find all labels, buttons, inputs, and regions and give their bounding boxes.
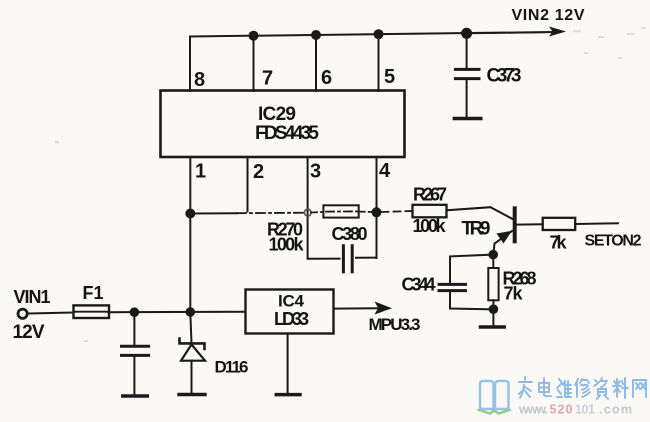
IC IC29 FDS4435 box: [161, 91, 405, 158]
svg-text:IC29: IC29: [258, 104, 296, 125]
transistor TR9 base bar: [513, 208, 517, 241]
node dot R268 bottom: [489, 304, 499, 314]
svg-text:C380: C380: [332, 224, 368, 244]
svg-text:C373: C373: [487, 66, 522, 87]
wire pin 1 vertical: [189, 157, 191, 312]
wire R267 to TR9 base: [447, 207, 514, 219]
transistor TR9 emitter arrowhead: [497, 231, 513, 244]
resistor R270 box: [323, 205, 358, 217]
svg-text:5: 5: [384, 66, 395, 88]
node open dot pin3: [304, 209, 311, 216]
node dot emitter junction: [488, 250, 498, 260]
watermark chinese text 家电维修资料网: [519, 377, 646, 399]
node dot D116/pin1: [186, 307, 196, 317]
capacitor C373 lead top: [466, 33, 468, 69]
wire dashed pin2 to pin3: [237, 212, 306, 215]
wire pin 7 vertical: [253, 36, 255, 91]
svg-text:D116: D116: [215, 358, 249, 377]
ground bar under input cap: [123, 394, 148, 398]
zener D116 cathode bar: [180, 339, 205, 350]
node dot pin5 top rail: [374, 29, 384, 39]
wire IC4 ground: [287, 334, 289, 393]
watermark book underline: [478, 410, 512, 414]
wire pin 6 vertical: [315, 35, 317, 91]
capacitor C380 lead right: [356, 257, 377, 259]
arrowhead VIN2: [549, 27, 566, 37]
wire pin 3 vertical: [307, 158, 309, 259]
wire top rail VIN2: [190, 32, 553, 37]
svg-text:4: 4: [379, 160, 391, 182]
svg-text:101: 101: [575, 403, 595, 417]
resistor R268 box: [488, 268, 498, 300]
wire VIN1 to F1: [29, 313, 72, 314]
wire pin 8 vertical: [189, 37, 191, 92]
wire pin 5 vertical: [378, 34, 380, 91]
fuse F1 inner line: [74, 311, 110, 313]
网: [633, 380, 646, 397]
svg-text:IC4: IC4: [278, 292, 305, 311]
fuse F1 box: [74, 305, 110, 318]
svg-text:6: 6: [321, 67, 332, 89]
ground bar under D116: [179, 393, 205, 397]
wire top rail arrow segment: [467, 32, 553, 33]
wire 7k to SETON2: [575, 222, 618, 225]
料: [613, 378, 628, 398]
zener D116 bottom lead: [191, 361, 193, 393]
capacitor C380 lead left: [308, 258, 340, 260]
capacitor C373 plates: [455, 68, 479, 71]
svg-text:.com: .com: [599, 403, 632, 417]
svg-text:www.: www.: [518, 403, 548, 417]
svg-text:12V: 12V: [13, 322, 45, 343]
wire R268 bottom to ground: [492, 300, 494, 325]
wire dashed pin4 to R267: [382, 211, 412, 212]
node dot C373 top rail: [461, 28, 472, 39]
修: [575, 379, 590, 397]
svg-text:520: 520: [550, 403, 573, 417]
zener D116 triangle: [181, 345, 205, 361]
svg-text:100k: 100k: [269, 235, 305, 255]
svg-text:VIN2 12V: VIN2 12V: [512, 7, 585, 24]
wire TR9 collector to 7k: [516, 223, 543, 225]
wire C344 bottom to R268 bottom: [450, 291, 493, 310]
svg-text:VIN1: VIN1: [14, 287, 51, 307]
capacitor C373 lead bottom: [466, 79, 468, 117]
svg-text:7: 7: [262, 68, 273, 90]
wire emitter junction to C344: [450, 255, 493, 285]
capacitor C380 plates: [342, 246, 345, 272]
资: [594, 378, 608, 399]
wire dashed R270 to pin4: [359, 211, 372, 213]
svg-text:2: 2: [253, 161, 264, 183]
transistor TR9 emitter diagonal: [493, 231, 512, 254]
svg-text:8: 8: [194, 69, 205, 91]
scan specks (faint): [55, 27, 646, 342]
ground bar under IC4: [276, 393, 300, 397]
wire pin 4 vertical: [376, 157, 378, 258]
node dot pin6 top rail: [311, 30, 321, 40]
svg-text:SETON2: SETON2: [585, 233, 642, 250]
regulator IC4 LD33 box: [246, 290, 334, 334]
watermark book icon: [480, 381, 509, 409]
ground bar under C373: [454, 117, 480, 121]
arrowhead MPU3.3: [375, 302, 393, 315]
wire IC4 output: [334, 307, 380, 309]
watermark url www.520101.com: [518, 403, 632, 417]
svg-text:100k: 100k: [413, 216, 447, 236]
node dot cap1: [130, 307, 140, 317]
wire dash-dot inside R270: [326, 210, 357, 212]
wire junction to R268 top: [492, 255, 494, 268]
resistor 7k box (SETON2): [543, 218, 576, 230]
svg-text:3: 3: [310, 161, 321, 183]
svg-text:TR9: TR9: [462, 219, 491, 240]
svg-text:LD33: LD33: [274, 309, 309, 329]
家: [519, 377, 532, 398]
node dot pin1 dashed rail: [185, 209, 195, 219]
node dot pin4: [372, 207, 382, 217]
wire F1 to IC4: [108, 311, 245, 314]
capacitor (input) plates: [122, 345, 149, 348]
svg-text:7k: 7k: [504, 284, 524, 304]
wire pin1 to dashes solid: [190, 212, 237, 214]
wire dashed pin3 to R270: [311, 211, 323, 214]
svg-text:1: 1: [195, 161, 206, 183]
电: [539, 378, 551, 396]
node dot pin7 top rail: [249, 31, 259, 41]
capacitor (input) lead bottom: [133, 355, 135, 394]
维: [557, 379, 571, 397]
svg-text:MPU3.3: MPU3.3: [369, 315, 421, 334]
svg-text:R267: R267: [413, 185, 447, 205]
svg-text:F1: F1: [83, 283, 104, 303]
resistor R267 box: [413, 205, 447, 218]
svg-text:C344: C344: [402, 275, 436, 295]
zener D116 top lead: [190, 312, 191, 343]
wire pin 2 vertical: [247, 158, 249, 212]
capacitor (input) lead top: [133, 312, 135, 346]
capacitor C344 plates: [439, 283, 466, 286]
ground bar under R268: [481, 325, 505, 329]
terminal VIN1 circle: [18, 309, 27, 318]
svg-text:7k: 7k: [550, 233, 568, 253]
svg-text:FDS4435: FDS4435: [255, 123, 319, 144]
